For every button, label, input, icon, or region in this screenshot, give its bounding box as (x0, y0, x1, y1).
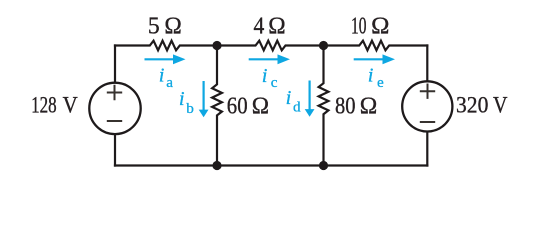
svg-text:V: V (493, 92, 508, 117)
svg-text:i: i (179, 88, 185, 110)
svg-text:80: 80 (335, 93, 356, 120)
svg-text:i: i (368, 65, 374, 87)
svg-text:Ω: Ω (164, 13, 181, 40)
svg-text:i: i (286, 87, 292, 109)
svg-text:b: b (186, 100, 194, 117)
svg-text:Ω: Ω (371, 13, 389, 40)
svg-text:Ω: Ω (268, 13, 285, 40)
svg-text:5: 5 (148, 13, 160, 40)
svg-text:320: 320 (456, 92, 488, 117)
svg-text:128: 128 (31, 92, 57, 117)
svg-text:i: i (262, 65, 268, 87)
svg-text:4: 4 (254, 13, 265, 40)
svg-text:e: e (377, 74, 384, 91)
svg-text:c: c (271, 74, 278, 91)
svg-text:d: d (293, 99, 301, 116)
svg-text:Ω: Ω (252, 93, 269, 120)
svg-text:V: V (63, 92, 78, 117)
svg-text:Ω: Ω (360, 93, 378, 120)
svg-text:10: 10 (351, 13, 367, 40)
svg-text:i: i (159, 65, 165, 87)
svg-text:a: a (166, 74, 173, 91)
svg-text:60: 60 (227, 93, 248, 120)
